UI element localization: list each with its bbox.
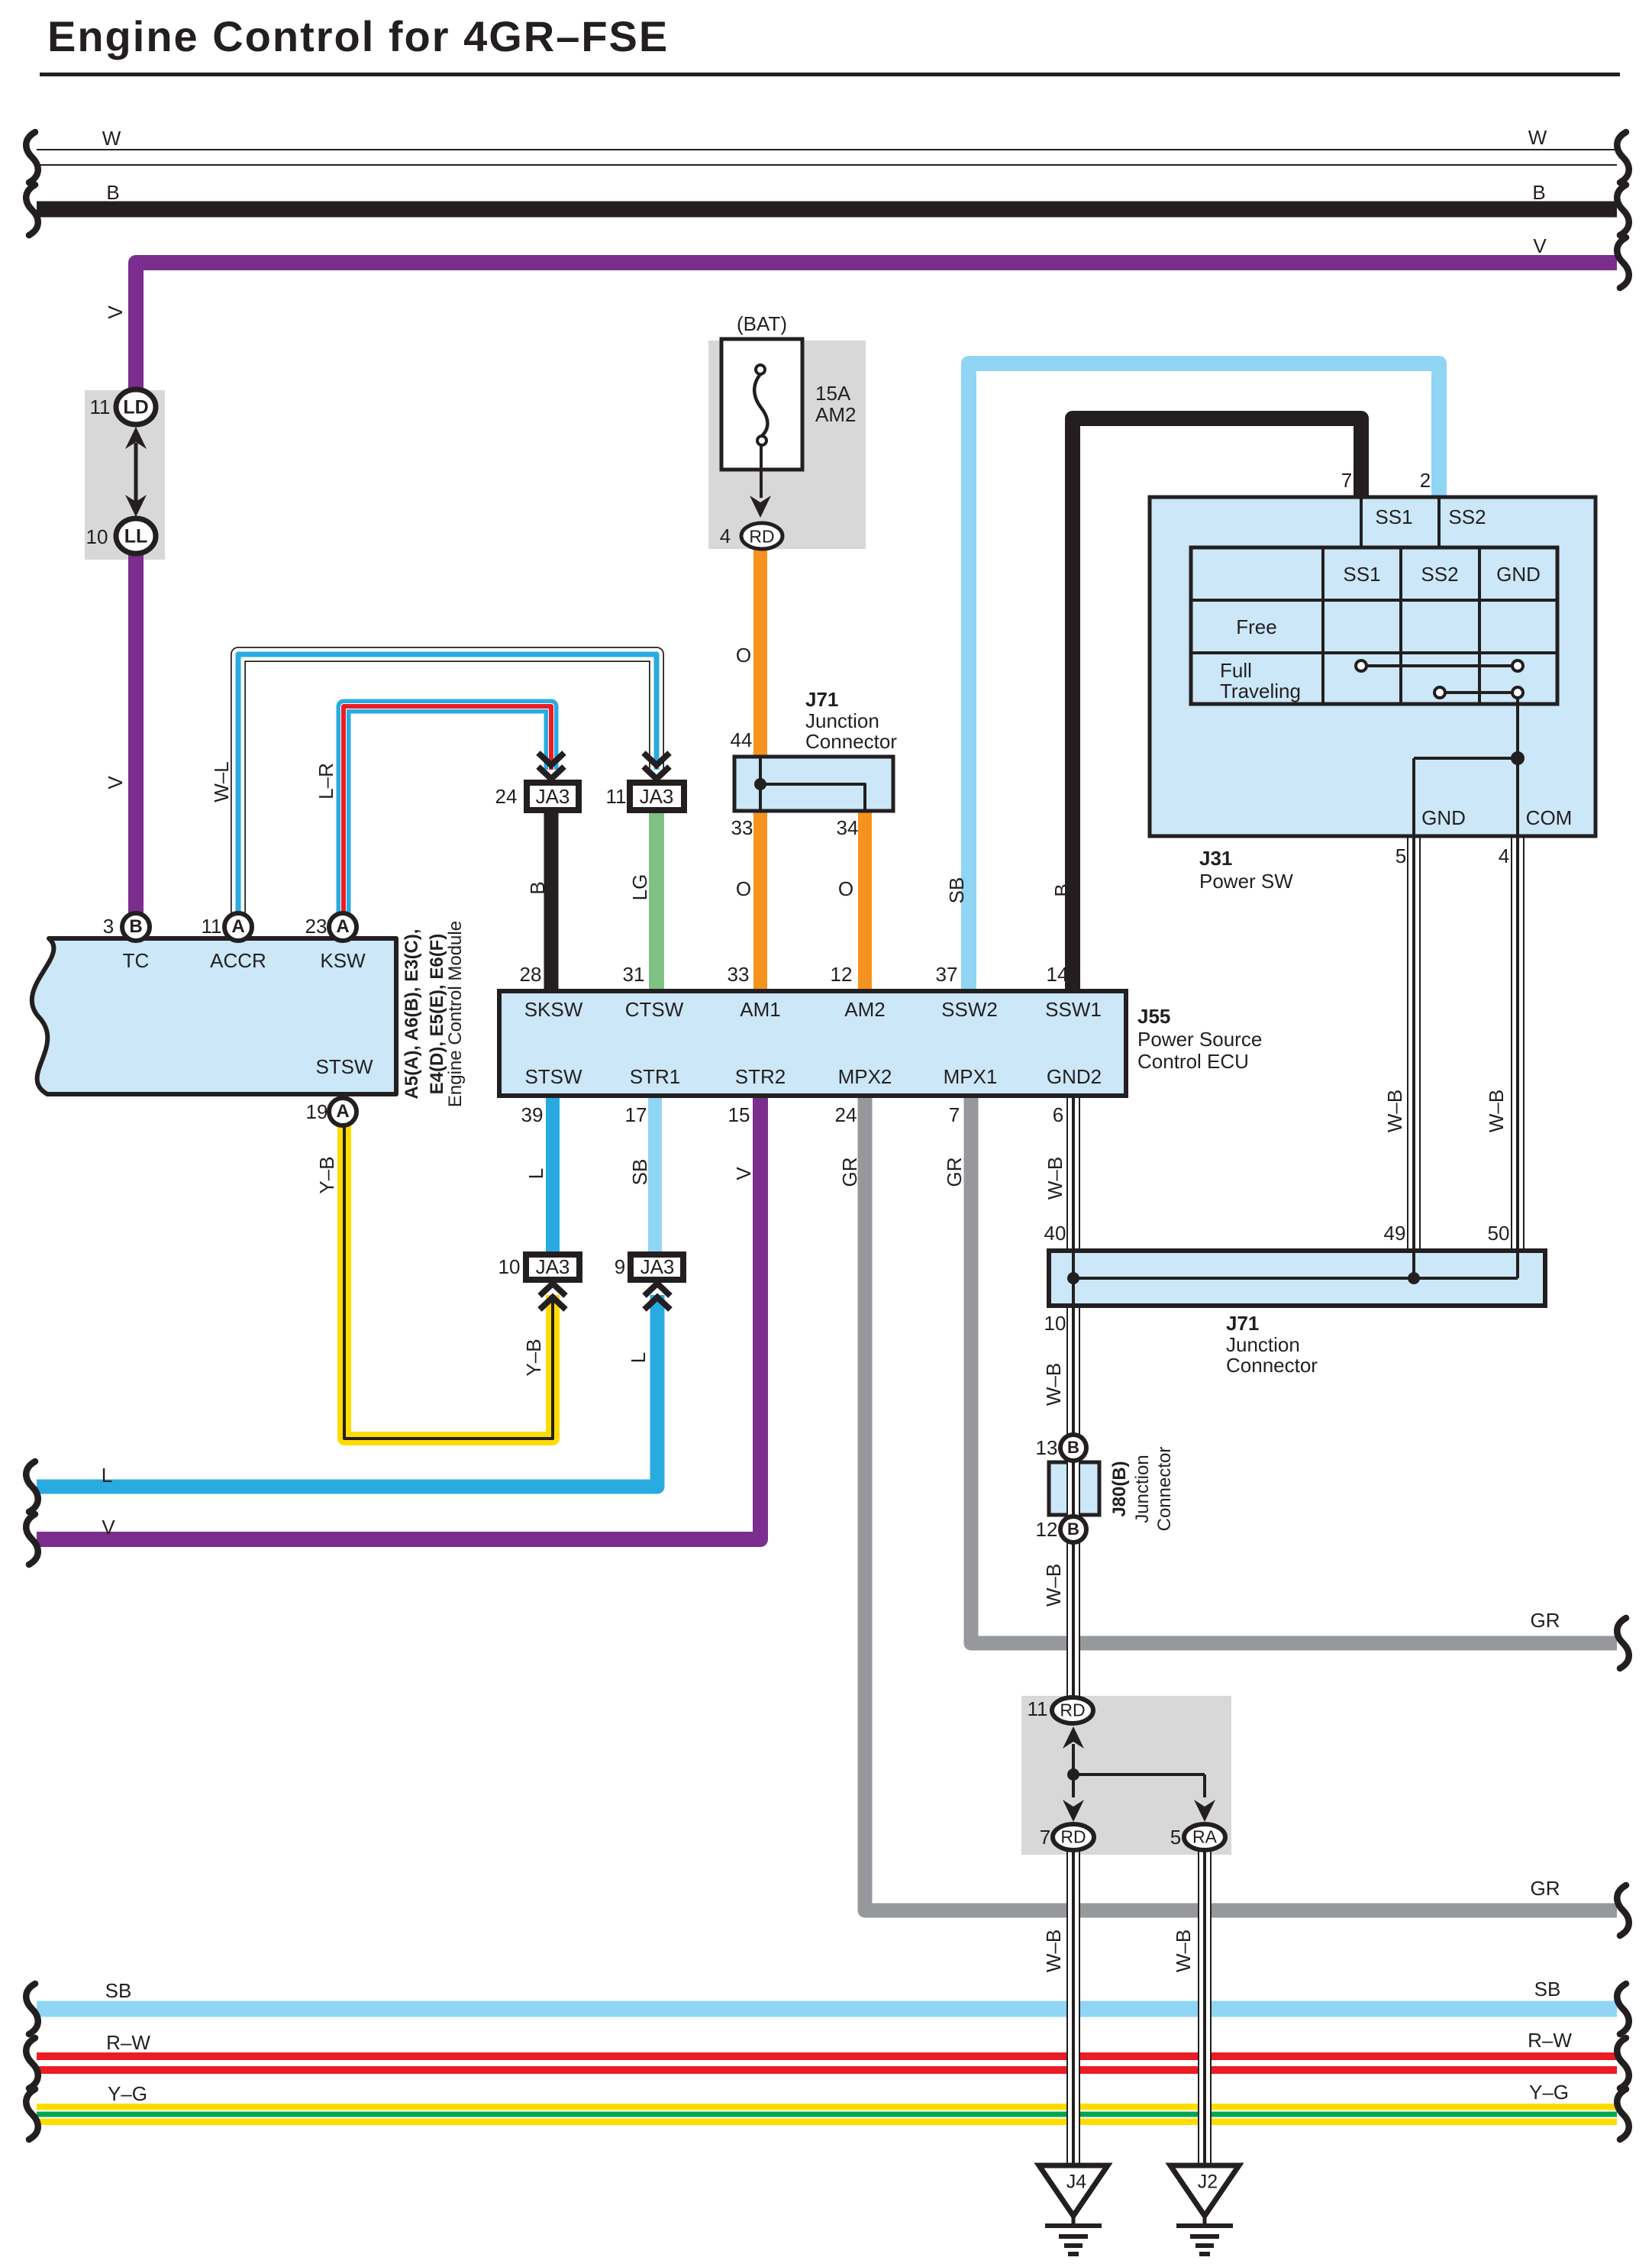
ECM KSW label [320, 951, 365, 970]
J55 MPX1 [944, 1067, 998, 1087]
label LG rotated [630, 874, 650, 901]
label GR rotated 24 [840, 1158, 860, 1187]
node 44 label [731, 730, 753, 750]
wire V bus top + vertical drop to LD (violet) [136, 263, 1617, 393]
J55 AM1 [740, 999, 780, 1019]
wire L-R from ECM KSW pin 23 to JA3 (blue-red) [344, 706, 551, 920]
JA3 text 11 [640, 786, 674, 806]
connector 10 JA3 box [526, 1255, 579, 1280]
node 50 label [1488, 1223, 1510, 1243]
label Y-B rotated upper [317, 1156, 337, 1193]
connector 11 JA3 box [630, 783, 684, 810]
pin B text [129, 918, 142, 936]
ECM side text line3 [447, 921, 465, 1107]
wire V segment LL to ECM pin 3 (violet) [128, 550, 144, 920]
JA3 text 24 [536, 786, 570, 806]
chevron arrow into 9 JA3 [644, 1297, 670, 1309]
node 19 label [306, 1102, 328, 1122]
connector 7 RD ellipse [1053, 1824, 1094, 1850]
node 17 label [625, 1105, 647, 1125]
J31 table SS1 [1343, 564, 1380, 584]
label W-B rotated J2 [1173, 1930, 1193, 1972]
LL text [124, 528, 148, 547]
label SB bus right [1534, 1979, 1561, 1999]
label L rotated 39 [526, 1168, 546, 1179]
JA3 text 9 [640, 1257, 675, 1277]
wire R-W bus bottom (red-white) [37, 2052, 1617, 2074]
node 6 label [1053, 1105, 1063, 1125]
node 5 label [1395, 846, 1406, 866]
node 24 label [495, 786, 518, 806]
J55 power source control ECU box [499, 991, 1126, 1096]
ECM pin 3 B circle [122, 913, 150, 941]
node 33 label [731, 818, 753, 838]
J55 SKSW [524, 999, 583, 1019]
label Y-B rotated lower [524, 1339, 544, 1376]
wire W-B from RD 7 to ground J4 (white-black) [1066, 1848, 1080, 2169]
title underline [40, 73, 1620, 76]
node 14 label [1047, 964, 1069, 984]
J31 label [1199, 848, 1232, 868]
label GR rotated 7 [944, 1158, 964, 1187]
arrow down into RA 5 [1203, 1775, 1206, 1797]
node 11 RD label [1028, 1699, 1048, 1719]
ECM pin 11 A circle [224, 913, 252, 941]
label SB rotated 37 [947, 877, 966, 904]
title [47, 15, 669, 58]
node 23 label [305, 916, 327, 936]
label L rotated JA3 9 [628, 1352, 648, 1363]
arrow up into RD 11 [1063, 1726, 1084, 1749]
break squiggle right GR2 [1617, 1885, 1629, 1936]
label O lower left [736, 879, 751, 899]
ground J4 text [1066, 2173, 1086, 2192]
wire LG from JA3 11 to J55 CTSW pin 31 (light green) [649, 809, 664, 993]
J55 STSW [524, 1067, 582, 1087]
arrow pair between LD and LL [134, 443, 138, 504]
node 10 J71 label [1044, 1313, 1066, 1333]
J31 table GND [1496, 564, 1541, 584]
ECM pin 23 A circle [329, 913, 357, 941]
J31 SS1/SS2 pin dividers [1360, 499, 1363, 547]
label W-B rotated J4 [1044, 1930, 1063, 1972]
label GR right 1 [1531, 1610, 1560, 1630]
break squiggle left R-W [26, 2038, 38, 2088]
gray shade behind AM2 fuse [708, 341, 866, 549]
label SB rotated 17 [630, 1159, 650, 1186]
label W left [102, 128, 121, 148]
RA text 5 [1192, 1829, 1217, 1846]
chevron arrow into 10 JA3 [540, 1297, 566, 1309]
J71 junction connector box (top) [734, 757, 893, 811]
label B rotated 28 [528, 881, 547, 894]
connector 9 JA3 box [631, 1255, 683, 1280]
J31 full-traveling contact SS2-GND [1440, 691, 1518, 694]
fuse element [756, 365, 765, 374]
J31 internal GND/COM wiring [1516, 698, 1519, 836]
node 3 label [103, 916, 114, 936]
node 7 J31 label [1341, 470, 1352, 490]
wire SB from J55 STR1 pin 17 to JA3 9 (sky blue) [648, 1094, 662, 1257]
wire W bus top (white) [37, 149, 1617, 166]
label V rotated 15 [734, 1167, 753, 1180]
RD text fuse [749, 528, 774, 546]
node 12 J80 label [1036, 1519, 1058, 1539]
fuse output arrow to RD [760, 445, 763, 498]
node 5 RA label [1170, 1827, 1181, 1847]
node 4 label [720, 526, 731, 546]
label W right [1528, 128, 1547, 147]
LD text [123, 399, 148, 418]
wire SB bus bottom (sky blue) [37, 2001, 1617, 2017]
break squiggle right Y-G [1617, 2089, 1629, 2139]
pin A text 23 [336, 918, 349, 936]
break squiggle right V [1617, 237, 1629, 288]
node 7 RD label [1040, 1827, 1050, 1847]
break squiggle left B [26, 185, 38, 235]
wire W-B from J31 COM pin 4 to J71 50 (white-black) [1511, 836, 1525, 1254]
gray shade behind LD/LL connectors [85, 390, 165, 560]
ground J2 text [1198, 2173, 1218, 2192]
J55 label [1137, 1006, 1170, 1026]
J80 pin 13 B circle [1060, 1435, 1086, 1461]
wire B from JA3 24 to J55 SKSW pin 28 (black) [544, 809, 559, 993]
J80 junction rotated [1134, 1455, 1152, 1523]
node 10 JA3 label [499, 1257, 521, 1277]
wire SB from J55 SSW2 pin 37 to J31 SS2 pin 2 (sky blue) [969, 363, 1439, 993]
connector 10 LL ellipse [116, 518, 156, 554]
gray shade behind RD/RA connectors [1021, 1696, 1231, 1855]
label W-B rotated 13 [1044, 1363, 1063, 1406]
connector 24 JA3 box [527, 783, 579, 810]
label R-W bus left [106, 2033, 150, 2052]
J31 internal contact table [1191, 547, 1557, 704]
connector 11 RD ellipse [1052, 1697, 1093, 1723]
wire GR from J55 MPX2 pin 24 to right edge (gray) [865, 1094, 1617, 1910]
wire L from J55 STSW pin 39 to JA3 10 (blue) [546, 1094, 560, 1257]
JA3 text 10 [536, 1257, 570, 1277]
label W-L rotated [211, 761, 231, 802]
ground J2 triangle [1170, 2165, 1239, 2216]
node 7 label [949, 1105, 960, 1125]
wire W-B from RA 5 to ground J2 (white-black) [1198, 1848, 1212, 2169]
node 4 J31 label [1499, 846, 1509, 866]
J31 COM label [1526, 808, 1573, 828]
J80(B) junction connector box [1049, 1462, 1099, 1515]
node 24 J55 label [835, 1105, 857, 1125]
J80 connector rotated [1156, 1447, 1174, 1532]
J71 junction connector bar (long) [1049, 1251, 1545, 1306]
wire B bus top (black) [37, 202, 1617, 218]
J31 Full Traveling [1220, 660, 1252, 680]
break squiggle right R-W [1617, 2038, 1629, 2088]
J55 GND2 [1047, 1067, 1102, 1087]
break squiggle right W [1617, 132, 1629, 182]
break squiggle right SB [1617, 1984, 1629, 2034]
node 28 label [520, 964, 542, 984]
J31 table SS2 [1421, 564, 1458, 584]
label L-R rotated [316, 763, 336, 799]
label (BAT) [737, 314, 787, 334]
node 11 LD label [90, 397, 111, 417]
node 11 JA3 label [606, 786, 627, 806]
wire L bus from JA3 9 to left edge (blue) [37, 1295, 657, 1487]
label V rotated upper [105, 305, 125, 318]
label Y-G bus left [108, 2084, 147, 2104]
engine control module box (torn left edge) [32, 938, 396, 1094]
label W-B rotated 50 [1486, 1090, 1506, 1132]
fuse 15A AM2 box [721, 339, 802, 470]
wire GR from J55 MPX1 pin 7 to right edge (gray) [971, 1094, 1617, 1643]
RD text 7 [1060, 1829, 1086, 1846]
J71 top label [805, 689, 838, 709]
label SB bus left [105, 1981, 132, 2001]
wire W-B through J80(B) [1066, 1460, 1080, 1517]
label V rotated lower [105, 776, 125, 789]
node 10 LL label [86, 527, 108, 547]
label R-W bus right [1528, 2030, 1572, 2050]
label B left [106, 182, 119, 202]
node 15 label [728, 1105, 750, 1125]
J55 MPX2 [838, 1067, 892, 1087]
node 2 J31 label [1420, 470, 1431, 490]
break squiggle left V [26, 1514, 38, 1565]
J55 SSW1 [1045, 999, 1102, 1019]
J55 AM2 [844, 999, 885, 1019]
J31 GND label [1421, 808, 1466, 828]
wire O from fuse RD to J71 44 to J55 AM1 pin 33 (orange) [753, 544, 767, 993]
ECM pin 19 A circle [329, 1098, 357, 1125]
node 13 label [1036, 1438, 1058, 1458]
node 33 J55 label [728, 964, 750, 984]
label O lower right [838, 879, 853, 899]
wire B from J55 SSW1 pin 14 to J31 SS1 pin 7 (black) [1073, 418, 1361, 993]
break squiggle left W [26, 132, 38, 182]
label W-B rotated 49 [1385, 1090, 1405, 1132]
ECM STSW label [315, 1057, 373, 1077]
label V right [1533, 236, 1546, 256]
label V bus [102, 1517, 115, 1537]
wire Y-B from ECM STSW pin 19 to JA3 10 (yellow-black) [344, 1113, 553, 1439]
node 40 label [1044, 1223, 1066, 1243]
chevron arrow into 11 JA3 [644, 753, 670, 765]
label Y-G bus right [1529, 2082, 1569, 2102]
break squiggle left Y-G [26, 2089, 38, 2139]
wire W-B from J31 GND pin 5 to J71 49 (white-black) [1407, 836, 1421, 1254]
wire V bus from J55 STR2 pin 15 to left edge (violet) [37, 1094, 760, 1539]
J31 power SW box [1150, 497, 1596, 836]
label GR right 2 [1531, 1878, 1560, 1898]
J31 SS1 cell [1375, 507, 1412, 527]
J80 B text bottom [1067, 1521, 1079, 1538]
label W-B rotated 6 [1045, 1157, 1065, 1200]
label B rotated 14 [1052, 883, 1072, 896]
wire W-L from ECM ACCR pin 11 to JA3 (white-blue) [238, 654, 657, 920]
J31 SS2 cell [1448, 507, 1486, 527]
arrow down into RD 7 [1072, 1775, 1075, 1797]
ECM side text line1 [403, 928, 421, 1099]
ground J4 hatching [1045, 2223, 1102, 2228]
connector 11 LD ellipse [116, 389, 156, 425]
node 34 label [837, 818, 859, 838]
J55 STR1 [630, 1067, 680, 1087]
break squiggle left L [26, 1461, 38, 1512]
pin A text 19 [336, 1103, 349, 1121]
node 49 label [1384, 1223, 1406, 1243]
break squiggle right B [1617, 185, 1629, 235]
label O upper orange [736, 645, 751, 665]
J55 CTSW [625, 999, 684, 1019]
junction dot + branch to RA [1067, 1768, 1079, 1781]
J71 top internal bus [759, 758, 762, 809]
pin A text 11 [231, 918, 244, 936]
label 15A AM2 [815, 383, 850, 403]
J31 Free [1236, 617, 1276, 637]
ground J2 hatching [1176, 2223, 1233, 2228]
label B right [1532, 182, 1545, 202]
connector 5 RA ellipse [1184, 1824, 1225, 1850]
J31 full-traveling contact SS1-GND [1361, 664, 1518, 667]
connector 4 RD ellipse [741, 523, 782, 549]
node 12 label [831, 964, 853, 984]
J80 pin 12 B circle [1060, 1516, 1086, 1542]
label L bus [102, 1465, 112, 1485]
chevron arrow into 24 JA3 [538, 753, 564, 765]
node 31 label [623, 964, 645, 984]
J80 B text top [1067, 1439, 1079, 1456]
wire Y-G bus bottom (yellow-green) [37, 2104, 1617, 2125]
J55 SSW2 [941, 999, 998, 1019]
wire O from J71 34 to J55 AM2 pin 12 (orange) [858, 808, 872, 993]
ground J4 triangle [1039, 2165, 1108, 2216]
node 37 label [936, 964, 958, 984]
ECM TC label [123, 951, 150, 970]
ECM ACCR label [210, 951, 266, 970]
RD text 11 [1060, 1702, 1085, 1720]
ECM side text line2 [428, 934, 447, 1095]
break squiggle left SB [26, 1984, 38, 2034]
J55 STR2 [735, 1067, 786, 1087]
J71 bar internal bus [1072, 1252, 1075, 1304]
wire W-B from J55 GND2 pin 6 through J71/J80 to RD 11 (white-black) [1066, 1094, 1080, 1713]
break squiggle right GR1 [1617, 1618, 1629, 1668]
J71 bar label [1226, 1313, 1259, 1333]
node 11 label ACCR [202, 916, 222, 936]
node 9 JA3 label [615, 1257, 625, 1277]
label W-B rotated 11 [1044, 1564, 1063, 1607]
node 39 label [521, 1105, 544, 1125]
J80 label rotated [1111, 1461, 1129, 1516]
